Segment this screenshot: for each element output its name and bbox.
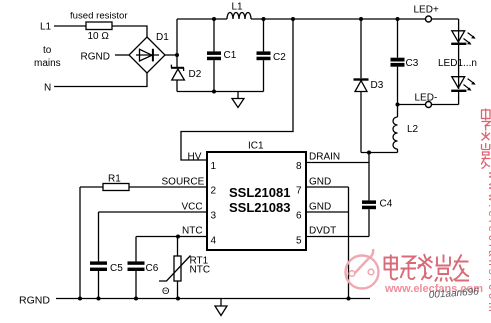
- svg-text:fused resistor: fused resistor: [70, 11, 128, 22]
- svg-text:mains: mains: [34, 58, 61, 69]
- svg-text:6: 6: [296, 211, 302, 222]
- svg-text:C4: C4: [380, 199, 393, 210]
- svg-text:L1: L1: [40, 22, 52, 33]
- svg-text:7: 7: [296, 186, 302, 197]
- svg-text:Θ: Θ: [162, 286, 169, 297]
- svg-text:N: N: [44, 83, 51, 94]
- svg-text:HV: HV: [188, 152, 202, 163]
- svg-text:to: to: [43, 45, 52, 56]
- svg-text:SSL21081: SSL21081: [229, 185, 290, 200]
- svg-text:SOURCE: SOURCE: [162, 177, 205, 188]
- svg-text:LED+: LED+: [414, 5, 439, 16]
- svg-text:RGND: RGND: [81, 52, 110, 63]
- svg-text:C1: C1: [224, 50, 237, 61]
- svg-text:SSL21083: SSL21083: [229, 200, 290, 215]
- svg-text:RGND: RGND: [19, 295, 50, 307]
- svg-text:L1: L1: [232, 2, 244, 13]
- svg-text:1: 1: [211, 161, 217, 172]
- svg-text:L2: L2: [407, 124, 419, 135]
- svg-text:IC1: IC1: [248, 141, 264, 152]
- svg-text:DVDT: DVDT: [309, 226, 336, 237]
- svg-text:C2: C2: [273, 52, 286, 63]
- svg-text:D3: D3: [371, 80, 384, 91]
- svg-text:D2: D2: [189, 69, 202, 80]
- svg-text:NTC: NTC: [190, 265, 211, 276]
- svg-text:LED-: LED-: [415, 93, 438, 104]
- svg-text:C3: C3: [406, 58, 419, 69]
- svg-text:www.elecfans.com: www.elecfans.com: [486, 170, 491, 315]
- svg-text:DRAIN: DRAIN: [309, 152, 340, 163]
- svg-text:4: 4: [211, 236, 217, 247]
- svg-text:2: 2: [211, 186, 217, 197]
- svg-text:10 Ω: 10 Ω: [88, 31, 110, 42]
- svg-text:C6: C6: [146, 263, 159, 274]
- svg-text:5: 5: [296, 236, 302, 247]
- svg-text:001aan696: 001aan696: [428, 286, 479, 300]
- svg-text:VCC: VCC: [182, 202, 203, 213]
- svg-text:3: 3: [211, 211, 217, 222]
- svg-text:C5: C5: [110, 263, 123, 274]
- svg-text:GND: GND: [309, 177, 331, 188]
- svg-text:D1: D1: [156, 32, 169, 43]
- svg-text:LED1...n: LED1...n: [438, 58, 477, 69]
- svg-text:GND: GND: [309, 202, 331, 213]
- svg-text:R1: R1: [108, 174, 121, 185]
- svg-text:8: 8: [296, 161, 302, 172]
- svg-text:NTC: NTC: [182, 226, 203, 237]
